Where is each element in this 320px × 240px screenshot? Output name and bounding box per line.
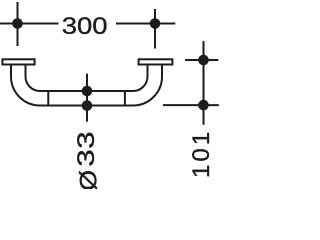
wire: vertical dimension line 101: [203, 41, 205, 125]
wire: diameter 33 marker vertical line: [86, 74, 88, 122]
svg-text:101: 101: [188, 129, 215, 178]
svg-text:33: 33: [72, 131, 100, 167]
grab bar tube outer profile: [11, 64, 162, 106]
tube joint line right: [124, 90, 126, 106]
node: diameter 33 top dot: [82, 86, 93, 97]
wire: top extension line of 101: [185, 59, 218, 61]
wire: bottom extension line of 101: [163, 104, 219, 106]
grab bar tube inner profile: [26, 64, 148, 91]
node: 101 dimension top dot: [198, 55, 209, 66]
node: diameter 33 bottom dot: [82, 100, 93, 111]
wire: right extension tick of 300: [154, 9, 156, 49]
svg-text:Ø: Ø: [76, 170, 103, 189]
tube joint line left: [47, 90, 49, 106]
node: 101 dimension bottom dot: [198, 100, 209, 111]
wire: dimension line 300 left segment: [0, 23, 59, 25]
svg-text:300: 300: [62, 14, 108, 40]
right wall flange plate: [139, 59, 173, 64]
left wall flange plate: [2, 59, 34, 64]
node: 300 dimension right dot: [150, 18, 161, 29]
wire: left extension tick of 300: [17, 2, 19, 46]
node: 300 dimension left dot: [12, 18, 23, 29]
wire: dimension line 300 right segment: [116, 23, 175, 25]
